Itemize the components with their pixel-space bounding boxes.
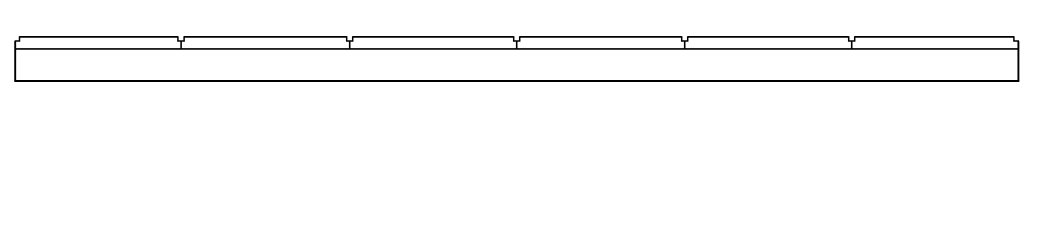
right end rabbet step [1014,36,1019,41]
board seam 1 [180,41,182,49]
board underside line [15,48,1018,50]
joint notch 3 [514,36,520,41]
deck board 4 top edge [520,36,682,38]
left end rabbet step [15,36,20,41]
deck board 3 top edge [353,36,514,38]
joint notch 4 [682,36,688,41]
bottom edge of fascia [14,80,1019,82]
deck board 6 top edge [855,36,1014,38]
joint notch 5 [849,36,855,41]
board seam 5 [851,41,853,49]
board seam 4 [684,41,686,49]
joint notch 1 [178,36,184,41]
joint notch 2 [347,36,353,41]
board seam 3 [516,41,518,49]
right edge of fascia [1017,41,1019,81]
deck board 5 top edge [688,36,849,38]
board seam 2 [349,41,351,49]
deck board 1 top edge [20,36,178,38]
deck board 2 top edge [184,36,347,38]
left edge of fascia [14,41,16,81]
